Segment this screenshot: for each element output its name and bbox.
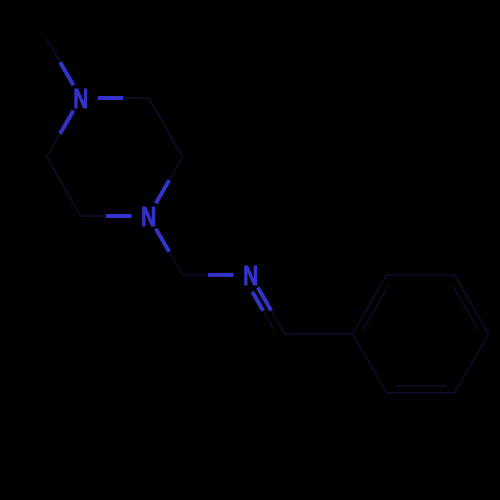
bond C2-C3 piperazine (C3 half)	[166, 128, 183, 158]
phenyl ring bond P6-P1 (P6 half)	[370, 363, 387, 393]
phenyl ring bond P4-P5 (P4 half)	[472, 334, 489, 363]
bond C5-C6 piperazine (C6 half)	[47, 157, 64, 187]
bond C2-C3 piperazine (C2 half)	[149, 98, 166, 128]
double bond N=CH imine (Nim half)	[258, 288, 271, 311]
svg-text:N: N	[141, 201, 156, 232]
phenyl ring bond P4-P5 (P5 half)	[455, 363, 472, 393]
bond CH-phenyl ipso (P1 half)	[319, 333, 353, 335]
phenyl ring bond P2-P3 (P2 half)	[387, 274, 421, 276]
phenyl ring bond P5-P6 inner line (P6 half)	[396, 385, 421, 387]
double bond N=CH imine inner line (Cim half)	[263, 311, 274, 330]
bond N1-C2 piperazine (C2 half)	[123, 97, 149, 99]
svg-text:N: N	[243, 260, 258, 291]
bond CH-phenyl ipso (Cim half)	[285, 333, 319, 335]
bond CH3-N1 (N-methyl) (CH3 half)	[47, 39, 60, 62]
svg-text:N: N	[73, 83, 88, 114]
bond CH2-N imine (CH2 half)	[183, 274, 209, 276]
double bond N=CH imine inner line (Nim half)	[252, 292, 263, 311]
bond N4-CH2 (N4 half)	[156, 229, 169, 252]
bond C6-N1 piperazine (N1 half)	[60, 111, 74, 134]
bond C5-C6 piperazine (C5 half)	[64, 187, 81, 217]
phenyl ring bond P1-P2 (P2 half)	[370, 275, 387, 305]
bond N4-CH2 (CH2 half)	[169, 252, 182, 275]
phenyl ring bond P6-P1 (P1 half)	[353, 334, 370, 363]
phenyl ring bond P3-P4 inner line (P4 half)	[466, 308, 479, 330]
phenyl ring bond P5-P6 (P5 half)	[421, 392, 455, 394]
bond CH3-N1 (N-methyl) (N1 half)	[60, 62, 73, 85]
bond N4-C5 piperazine (N4 half)	[106, 214, 132, 218]
bond N4-C5 piperazine (C5 half)	[81, 215, 107, 217]
phenyl ring bond P5-P6 (P6 half)	[387, 392, 421, 394]
bond C3-N4 piperazine (C3 half)	[169, 157, 182, 180]
bond CH2-N imine (Nim half)	[208, 273, 234, 277]
phenyl ring bond P3-P4 inner line (P3 half)	[453, 286, 466, 308]
phenyl ring bond P2-P3 (P3 half)	[421, 274, 455, 276]
phenyl ring bond P3-P4 (P4 half)	[472, 304, 489, 333]
bond N1-C2 piperazine (N1 half)	[98, 96, 123, 100]
bond C3-N4 piperazine (N4 half)	[156, 180, 169, 203]
phenyl ring bond P3-P4 (P3 half)	[455, 275, 472, 305]
phenyl ring bond P5-P6 inner line (P5 half)	[421, 385, 446, 387]
bond C6-N1 piperazine (C6 half)	[47, 134, 60, 157]
phenyl ring bond P1-P2 inner line (P1 half)	[363, 308, 376, 330]
phenyl ring bond P1-P2 (P1 half)	[353, 304, 370, 333]
phenyl ring bond P1-P2 inner line (P2 half)	[376, 286, 389, 308]
double bond N=CH imine (Cim half)	[271, 311, 284, 334]
